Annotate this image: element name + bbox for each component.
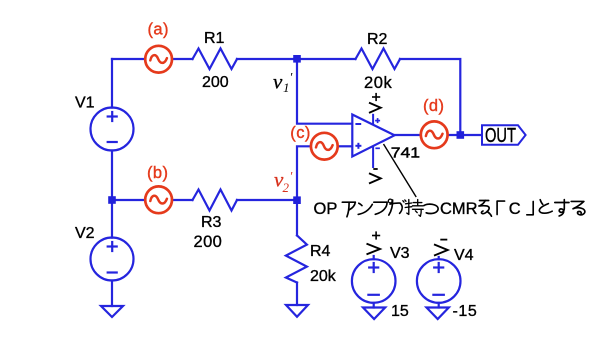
svg-text:R4: R4 xyxy=(310,243,331,260)
svg-text:V2: V2 xyxy=(75,225,95,242)
svg-text:CMR: CMR xyxy=(440,200,478,218)
svg-text:R2: R2 xyxy=(367,31,388,48)
svg-text:(b): (b) xyxy=(147,164,168,182)
svg-text:-15: -15 xyxy=(453,303,478,320)
svg-text:200: 200 xyxy=(202,74,229,91)
svg-text:R3: R3 xyxy=(201,214,222,231)
svg-text:C: C xyxy=(509,200,521,218)
svg-text:(d): (d) xyxy=(423,97,444,115)
svg-text:V1: V1 xyxy=(75,94,95,111)
svg-text:2: 2 xyxy=(283,180,290,195)
svg-text:20k: 20k xyxy=(364,74,393,92)
svg-text:′: ′ xyxy=(290,169,293,184)
svg-text:v: v xyxy=(273,70,283,94)
svg-text:OP: OP xyxy=(314,200,338,218)
svg-text:V3: V3 xyxy=(390,245,410,262)
svg-text:(c): (c) xyxy=(290,124,310,142)
svg-text:741: 741 xyxy=(391,145,420,162)
svg-text:200: 200 xyxy=(194,233,223,251)
svg-text:(a): (a) xyxy=(148,20,169,38)
svg-text:R1: R1 xyxy=(204,30,225,47)
svg-text:OUT: OUT xyxy=(485,125,516,147)
svg-text:20k: 20k xyxy=(310,268,337,285)
svg-text:15: 15 xyxy=(391,303,409,320)
svg-text:V4: V4 xyxy=(454,247,474,264)
svg-text:′: ′ xyxy=(290,70,293,85)
